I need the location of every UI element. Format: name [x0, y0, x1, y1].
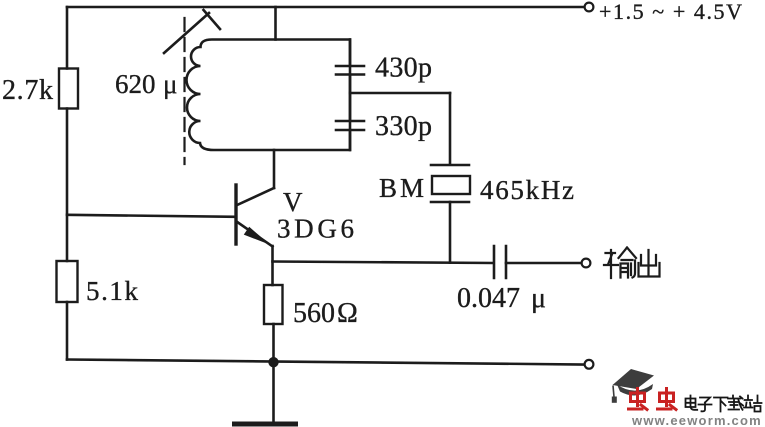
glyph shu (che radical)	[604, 250, 618, 278]
transistor emitter diagonal	[237, 222, 273, 247]
wire: emitter vertical to output node	[271, 246, 274, 285]
transistor collector diagonal	[237, 188, 274, 205]
wire: crystal to output line	[449, 202, 452, 263]
svg-text:+1.5 ~ + 4.5V: +1.5 ~ + 4.5V	[599, 0, 742, 24]
wire: top supply rail	[67, 6, 584, 9]
glyph zi	[699, 398, 712, 412]
glyph shu (yu part)	[619, 248, 637, 261]
wire: collector vertical to coil	[273, 150, 276, 188]
glyph xia	[714, 398, 728, 412]
svg-text:BM: BM	[379, 173, 424, 203]
svg-text:www.eeworm.com: www.eeworm.com	[631, 413, 761, 427]
wire: base wire	[67, 215, 235, 217]
label CJK output (shuchu) drawn as strokes	[604, 248, 660, 279]
crystal BM bottom plate	[431, 201, 469, 204]
glyph dian	[686, 396, 698, 410]
terminal: output	[582, 259, 591, 268]
glyph zhan	[744, 396, 762, 412]
wire: C1 to C2	[349, 75, 352, 121]
logo chongchong red glyphs	[629, 389, 677, 410]
inductor core dashed line	[183, 18, 185, 164]
svg-text:330p: 330p	[375, 111, 432, 142]
wire: cap tap branch horizontal	[350, 92, 450, 95]
capacitor C3 0.047u plates	[494, 246, 506, 278]
crystal BM top plate	[431, 164, 469, 167]
svg-text:Ω: Ω	[337, 298, 358, 329]
logo graduation cap	[612, 369, 654, 403]
wire: rail to coil top	[274, 7, 277, 40]
terminal: bottom right	[585, 360, 594, 369]
wire: ground stem	[272, 362, 275, 422]
glyph chu	[639, 250, 660, 277]
logo tassel line	[613, 386, 614, 398]
capacitor C1 430p	[336, 66, 364, 75]
svg-text:V: V	[283, 187, 303, 217]
svg-text:2.7k: 2.7k	[2, 75, 53, 106]
svg-text:μ: μ	[163, 69, 177, 99]
wire: coil top to C1	[349, 40, 352, 66]
svg-text:620: 620	[115, 69, 156, 99]
junction dot emitter/ground	[268, 357, 278, 367]
inductor adjust arrow T-bar	[204, 10, 221, 29]
logo text dianzi xiazaizhan drawn as strokes	[686, 396, 762, 412]
resistor R2 5.1k	[57, 261, 78, 302]
wire: left vertical upper (rail to R1)	[66, 7, 69, 69]
wire: left vertical lower (R2 to bottom rail)	[66, 302, 69, 360]
svg-text:3DG6: 3DG6	[277, 214, 354, 244]
transistor V base bar	[234, 185, 237, 244]
svg-text:560: 560	[293, 298, 335, 329]
resistor R1 2.7k	[59, 69, 78, 109]
transistor emitter arrowhead	[245, 228, 267, 243]
ground bar	[235, 422, 296, 427]
glyph zai	[728, 396, 743, 410]
inductor L1 620u body	[187, 40, 350, 151]
wire: C3 to output terminal	[506, 262, 582, 265]
svg-text:5.1k: 5.1k	[86, 276, 139, 306]
svg-text:0.047: 0.047	[457, 283, 520, 314]
wire: C2 to coil bottom	[349, 130, 352, 150]
inductor adjust arrow	[164, 13, 209, 53]
crystal BM body	[432, 176, 470, 194]
svg-text:430p: 430p	[375, 53, 432, 84]
wire: output line from emitter	[273, 262, 494, 264]
wire: bottom rail	[67, 360, 584, 365]
resistor R3 560ohm	[264, 285, 283, 324]
wire: R3 to bottom rail	[272, 324, 275, 362]
wire: branch down to crystal	[449, 93, 452, 165]
terminal: +V supply	[585, 3, 594, 12]
capacitor C2 330p	[336, 121, 364, 130]
svg-text:465kHz: 465kHz	[480, 175, 574, 205]
svg-text:μ: μ	[531, 283, 546, 314]
wire: left vertical middle (R1 to R2)	[66, 109, 69, 262]
